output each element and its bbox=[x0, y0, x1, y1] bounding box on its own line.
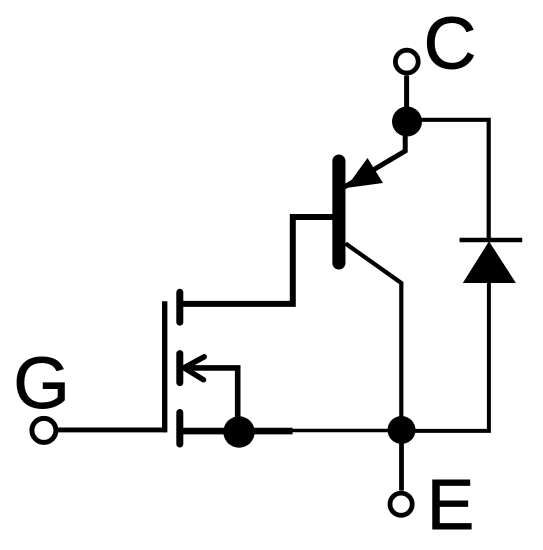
svg-text:E: E bbox=[427, 466, 474, 545]
Q2 body arrow bbox=[184, 357, 238, 418]
Q2 channel segment top bbox=[176, 292, 183, 322]
wire C terminal to collector node bbox=[404, 76, 409, 111]
transistor Q1 body bar bbox=[332, 161, 345, 263]
wire G terminal to gate bbox=[56, 427, 167, 432]
terminal G bbox=[32, 418, 56, 442]
Q1 base wire to Q2 drain bbox=[182, 217, 332, 304]
wire diode anode to emitter node bbox=[412, 283, 489, 431]
diode D1 bbox=[460, 240, 523, 283]
Q2 channel segment middle bbox=[176, 354, 183, 383]
wire collector node to diode cathode bbox=[420, 120, 489, 238]
wire source node to emitter node bbox=[292, 429, 392, 432]
node emitter junction bbox=[388, 416, 416, 444]
Q1 emitter wire bbox=[336, 135, 405, 192]
MOSFET Q2 gate line bbox=[162, 301, 167, 432]
svg-text:G: G bbox=[13, 343, 69, 424]
Q2 source stub bbox=[183, 428, 293, 435]
node source junction bbox=[223, 416, 254, 447]
Q1 emitter arrow bbox=[346, 158, 383, 188]
Q2 channel segment bottom bbox=[176, 413, 183, 445]
wire emitter node to terminal E bbox=[399, 441, 404, 491]
Q1 collector wire bbox=[346, 244, 402, 418]
terminal E bbox=[390, 493, 412, 515]
terminal C bbox=[395, 50, 418, 73]
svg-text:C: C bbox=[424, 3, 477, 84]
node collector junction bbox=[392, 107, 422, 137]
